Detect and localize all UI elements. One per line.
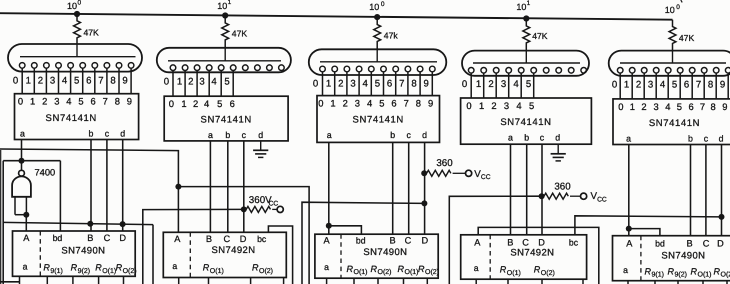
IC U3 SN74141N decoder/driver (column 3) (317, 96, 440, 143)
svg-text:2: 2 (343, 98, 348, 109)
wire: U3 pin b to counter 3 B (392, 142, 394, 234)
svg-text:B: B (507, 237, 513, 247)
nixie tube V5 (column 5, clipped) (609, 50, 730, 76)
svg-text:c: c (406, 130, 411, 140)
wire: +V supply rail (top) (0, 13, 673, 20)
svg-text:9: 9 (428, 98, 433, 109)
IC U9 SN7490N decade counter (column 3) (315, 234, 439, 284)
wire: net to U3 pin d (y=203) with drop at x=302 (302, 202, 424, 284)
svg-text:SN74141N: SN74141N (649, 118, 700, 129)
svg-text:3: 3 (653, 101, 658, 112)
node 10^0 label (column 1) (67, 0, 82, 11)
svg-text:c: c (540, 133, 545, 143)
svg-text:O(1): O(1) (210, 267, 224, 275)
svg-text:9(2): 9(2) (78, 267, 90, 275)
wire: U3 pin c to counter 3 C (408, 142, 410, 234)
wire: reset bus under counter 1 (B,D tie) (3, 222, 153, 224)
nixie tube V4 (column 4) (462, 50, 589, 76)
svg-text:3: 3 (350, 78, 355, 89)
svg-text:4: 4 (62, 76, 68, 87)
svg-text:C: C (703, 238, 710, 248)
wire: U2 pin c to counter 2 D (243, 141, 245, 232)
svg-text:4: 4 (516, 100, 521, 111)
junction: gate output on net (19, 158, 25, 164)
svg-text:R: R (691, 266, 698, 276)
svg-text:2: 2 (338, 78, 343, 89)
svg-text:D: D (421, 236, 428, 246)
svg-text:6: 6 (391, 98, 396, 109)
svg-text:6: 6 (387, 78, 392, 89)
svg-text:1: 1 (630, 101, 635, 112)
svg-text:7400: 7400 (35, 168, 56, 178)
ground symbol (U4 pin d) (551, 144, 566, 161)
svg-text:7: 7 (103, 95, 108, 106)
svg-text:4: 4 (660, 80, 666, 91)
svg-text:D: D (240, 234, 247, 244)
svg-text:7: 7 (98, 76, 103, 87)
svg-text:0: 0 (676, 4, 680, 11)
svg-text:360: 360 (554, 181, 571, 192)
svg-text:R: R (668, 266, 675, 276)
svg-text:1: 1 (228, 0, 232, 6)
nixie tube V3 (column 3) (309, 49, 447, 75)
IC U10 SN7492N counter (column 4) (461, 235, 587, 284)
IC U4 SN74141N decoder/driver (column 4) (461, 98, 592, 144)
svg-text:CC: CC (597, 196, 607, 203)
svg-text:a: a (23, 262, 28, 272)
svg-text:a: a (474, 263, 479, 273)
svg-text:R: R (398, 264, 405, 274)
svg-text:b: b (688, 133, 693, 143)
svg-text:d: d (422, 130, 427, 140)
wire: net y=186.6 to drop at x=309 (178, 187, 309, 284)
svg-text:8: 8 (708, 80, 713, 91)
svg-text:R: R (203, 263, 210, 273)
svg-text:R: R (534, 265, 541, 275)
svg-text:R: R (714, 266, 721, 276)
svg-text:5: 5 (74, 76, 79, 87)
svg-text:10: 10 (369, 2, 379, 12)
svg-text:R: R (252, 263, 259, 273)
svg-text:0: 0 (18, 95, 23, 106)
svg-text:bd: bd (655, 238, 665, 248)
svg-text:R: R (645, 266, 652, 276)
svg-text:0: 0 (381, 1, 385, 8)
svg-text:D: D (119, 233, 126, 243)
svg-text:bd: bd (53, 233, 63, 243)
svg-text:a: a (626, 133, 631, 143)
svg-text:3: 3 (54, 95, 59, 106)
svg-text:47K: 47K (232, 29, 248, 39)
svg-text:O(1): O(1) (698, 271, 712, 279)
cathode digit labels 0-5 (column 4) (462, 79, 531, 90)
junction: counter 1 B lead on bus (87, 221, 93, 227)
svg-text:0: 0 (466, 100, 471, 111)
svg-text:6: 6 (86, 76, 91, 87)
svg-text:4: 4 (204, 98, 209, 109)
svg-text:4: 4 (665, 101, 670, 112)
svg-text:9: 9 (122, 76, 127, 87)
node 10^1 label (column 4) (516, 0, 530, 12)
scan edge artifact (left) (0, 150, 2, 284)
wire: gate output net horizontal (y=160.7) (3, 160, 60, 162)
svg-text:3: 3 (199, 77, 204, 88)
svg-text:9(1): 9(1) (652, 271, 664, 279)
svg-text:O(2): O(2) (259, 267, 273, 275)
nixie tube V1 (column 1) (8, 44, 142, 72)
wire: net right branch down to counter bd input (59, 161, 61, 232)
svg-text:5: 5 (529, 100, 534, 111)
svg-text:bc: bc (257, 234, 267, 244)
svg-text:R: R (95, 262, 102, 272)
svg-text:2: 2 (193, 98, 198, 109)
svg-text:7: 7 (700, 101, 705, 112)
svg-text:SN74141N: SN74141N (500, 117, 551, 128)
svg-text:1: 1 (326, 78, 331, 89)
wire: U1 pin d to counter 1 D (122, 140, 124, 232)
svg-text:3: 3 (501, 79, 506, 90)
svg-text:6: 6 (90, 95, 95, 106)
svg-text:8: 8 (411, 78, 416, 89)
svg-text:10: 10 (516, 2, 526, 12)
svg-text:a: a (20, 129, 25, 139)
junction: U4 pin c lead to 360 ohm (539, 193, 545, 199)
IC U8 SN7492N counter (column 2) (163, 232, 286, 284)
svg-text:B: B (390, 236, 396, 246)
svg-text:A: A (474, 237, 481, 247)
svg-text:10: 10 (217, 1, 227, 11)
svg-text:7: 7 (696, 80, 701, 91)
svg-text:O(2): O(2) (378, 268, 392, 276)
svg-text:5: 5 (217, 98, 222, 109)
wire: drop x=142.8 and run to column 2 (143, 209, 244, 284)
svg-text:c: c (242, 130, 247, 140)
svg-text:6: 6 (688, 101, 693, 112)
svg-text:1: 1 (624, 80, 629, 91)
wire: counter 2 bc output route (up, right, down) (268, 226, 292, 284)
wire: U1 pin c to counter 1 C (106, 140, 108, 232)
svg-text:1: 1 (30, 95, 35, 106)
svg-text:B: B (687, 238, 693, 248)
svg-text:9: 9 (424, 78, 429, 89)
svg-text:B: B (206, 234, 212, 244)
wire: bus drop to bottom (x=153) (152, 225, 154, 284)
svg-text:R: R (116, 262, 123, 272)
junction: carry net tap (175, 184, 181, 190)
cathode digit labels 0-9 (column 3) (313, 78, 429, 89)
svg-text:d: d (258, 130, 263, 140)
svg-text:0: 0 (462, 79, 467, 90)
svg-text:0: 0 (78, 0, 82, 7)
svg-text:8: 8 (110, 76, 115, 87)
svg-text:a: a (508, 133, 513, 143)
svg-text:5: 5 (379, 98, 384, 109)
svg-text:1: 1 (476, 79, 481, 90)
svg-text:2: 2 (636, 80, 641, 91)
svg-text:A: A (174, 234, 181, 244)
svg-text:0: 0 (612, 80, 617, 91)
wire: U4 pin c to counter 4 D (541, 144, 543, 235)
svg-text:R: R (43, 262, 50, 272)
svg-text:D: D (538, 237, 545, 247)
resistor 360 ohm (column 3 net) (427, 170, 466, 176)
svg-text:b: b (390, 130, 395, 140)
svg-text:R: R (371, 264, 378, 274)
svg-text:2: 2 (641, 101, 646, 112)
svg-text:9: 9 (127, 95, 132, 106)
junction: gate inputs tied, to counter A (23, 212, 29, 232)
svg-text:5: 5 (375, 78, 380, 89)
junction: rail to R4 (523, 15, 529, 21)
svg-text:R: R (418, 264, 425, 274)
svg-text:b: b (524, 133, 529, 143)
svg-text:O(2): O(2) (123, 267, 137, 275)
label 360 (column 3) (436, 158, 453, 169)
junction: U2 pin c lead (241, 206, 247, 212)
svg-text:6: 6 (230, 98, 235, 109)
IC U11 SN7490N decade counter (column 5, clipped) (613, 236, 730, 284)
svg-text:D: D (717, 238, 724, 248)
junction: rail to R3 (374, 14, 380, 20)
junction: counter 1 D lead on bus (120, 221, 126, 227)
svg-text:B: B (87, 233, 93, 243)
svg-text:3: 3 (355, 98, 360, 109)
wire: net drop at left edge down to bottom (2, 161, 4, 284)
svg-text:C: C (104, 233, 111, 243)
cathode digit labels 0-9 (column 5) (612, 80, 725, 91)
wire: counter 4 bc up and right to counter 5 D (575, 216, 722, 235)
wire: U5 pin b to counter 5 B (690, 145, 692, 236)
svg-text:2: 2 (42, 95, 47, 106)
svg-text:0: 0 (164, 77, 169, 88)
junction: U3 pin d lead to 360 ohm (421, 170, 427, 176)
svg-text:SN7492N: SN7492N (510, 247, 554, 258)
svg-text:5: 5 (78, 95, 83, 106)
IC U1 SN74141N decoder/driver (column 1) (15, 94, 139, 140)
svg-text:a: a (324, 262, 329, 272)
label 360 (column 4) (554, 181, 571, 192)
junction: U3 pin d lead (carry) (421, 200, 427, 206)
svg-text:d: d (719, 133, 724, 143)
svg-text:1: 1 (479, 100, 484, 111)
svg-text:4: 4 (367, 98, 372, 109)
svg-text:0: 0 (618, 101, 623, 112)
wire: stray stub bottom left (0, 281, 19, 283)
svg-text:SN7490N: SN7490N (61, 246, 105, 257)
svg-text:C: C (223, 234, 230, 244)
wire: U4 pin a to counter 4 B (510, 144, 512, 235)
node 10^0 label (column 5) (665, 0, 682, 15)
svg-text:10: 10 (665, 5, 675, 15)
svg-text:9: 9 (722, 101, 727, 112)
wires: V1 cathodes 0-9 to U1 inputs (22, 68, 131, 94)
resistor 360 ohm (column 4 net) (544, 193, 581, 199)
wire: carry net from left edge (y=149) to counter 2 A (0, 149, 178, 232)
wires: V3 cathodes 0-9 to U3 inputs (323, 72, 433, 96)
svg-text:4: 4 (66, 95, 71, 106)
svg-text:O(1): O(1) (507, 269, 521, 277)
svg-text:d: d (120, 129, 125, 139)
label 7400 (35, 168, 56, 178)
junction: counter 5 A / bd tie (626, 226, 660, 236)
label Vcc (column 4) (591, 191, 607, 203)
svg-text:9(2): 9(2) (675, 271, 687, 279)
svg-text:3: 3 (50, 76, 55, 87)
svg-text:O(1): O(1) (102, 267, 116, 275)
svg-text:a: a (623, 265, 628, 275)
svg-text:CC: CC (481, 174, 491, 181)
svg-text:5: 5 (224, 77, 229, 88)
svg-text:4: 4 (513, 79, 519, 90)
cathode digit labels 0-9 (column 1) (13, 76, 128, 87)
resistor R3 47k (anode, column 3) (374, 17, 399, 49)
resistor R5 47K (anode, column 5; rail corner) (669, 20, 694, 51)
wire: U4 pin b to counter 4 C (526, 144, 528, 235)
svg-text:b: b (225, 130, 230, 140)
svg-text:b: b (89, 129, 94, 139)
svg-text:1: 1 (177, 77, 182, 88)
IC U2 SN74141N decoder/driver (column 2) (164, 96, 288, 141)
terminal Vcc (open circle, column 3) (466, 170, 472, 176)
svg-text:47k: 47k (384, 31, 399, 41)
svg-text:0: 0 (169, 98, 174, 109)
svg-text:2: 2 (38, 76, 43, 87)
label 360Vcc (249, 195, 279, 207)
node 10^1 label (column 2) (217, 0, 231, 11)
svg-text:5: 5 (672, 80, 677, 91)
svg-text:9: 9 (720, 80, 725, 91)
svg-text:8: 8 (115, 95, 120, 106)
junction: counter 5 D lead (carry) (719, 214, 725, 220)
svg-text:1: 1 (330, 98, 335, 109)
svg-text:47K: 47K (532, 31, 548, 41)
svg-text:c: c (704, 133, 709, 143)
svg-text:O(2): O(2) (721, 271, 730, 279)
svg-text:d: d (555, 133, 560, 143)
junction: counter 3 A / bd tie (326, 223, 362, 234)
svg-text:SN7490N: SN7490N (661, 250, 705, 261)
svg-text:A: A (23, 233, 30, 243)
wires: V4 cathodes 0-5 to U4 inputs (471, 73, 534, 98)
junction: rail to R2 (222, 12, 228, 18)
svg-text:9(1): 9(1) (50, 267, 62, 275)
svg-text:5: 5 (677, 101, 682, 112)
svg-text:a: a (327, 130, 332, 140)
wire: drop x=449.3 and run to U4 pin c (449, 196, 541, 284)
svg-text:7: 7 (399, 78, 404, 89)
cathode digit labels 0-5 (column 2) (164, 77, 230, 88)
wire: U2 pin b to counter 2 C (227, 141, 229, 232)
terminal Vcc (open circle) (277, 206, 283, 212)
svg-text:4: 4 (363, 78, 369, 89)
wire: U1 pin a down to gate output (21, 140, 23, 171)
wire: U5 pin c to counter 5 C (705, 145, 707, 236)
svg-text:C: C (522, 237, 529, 247)
svg-text:CC: CC (269, 200, 279, 207)
svg-text:a: a (172, 261, 177, 271)
wire: U5 pin a to counter 5 A (628, 145, 630, 236)
svg-text:0: 0 (318, 98, 323, 109)
svg-text:1: 1 (181, 98, 186, 109)
svg-text:0: 0 (13, 76, 18, 87)
svg-text:c: c (105, 129, 110, 139)
svg-text:a: a (208, 130, 213, 140)
wire: counter 4 A branch with drop at x=598.8 (478, 227, 599, 284)
svg-text:R: R (347, 264, 354, 274)
nixie tube V2 (column 2) (157, 47, 291, 72)
resistor R4 47K (anode, column 4) (523, 19, 548, 51)
svg-text:SN74141N: SN74141N (201, 115, 252, 126)
svg-text:bc: bc (569, 237, 579, 247)
svg-text:C: C (405, 236, 412, 246)
svg-text:3: 3 (504, 100, 509, 111)
resistor R1 47K (anode, column 1) (74, 14, 99, 45)
svg-text:4: 4 (211, 77, 217, 88)
svg-text:10: 10 (67, 1, 77, 11)
svg-text:8: 8 (710, 101, 715, 112)
svg-text:360: 360 (436, 158, 453, 169)
svg-text:R: R (500, 265, 507, 275)
node 10^0 label (column 3) (369, 1, 385, 12)
svg-text:2: 2 (188, 77, 193, 88)
wire: U3 pin d to counter 3 D (424, 142, 426, 234)
svg-text:bd: bd (356, 236, 366, 246)
svg-text:SN74141N: SN74141N (353, 115, 404, 126)
ground symbol (U2 pin d) (253, 141, 268, 158)
svg-text:5: 5 (526, 79, 531, 90)
svg-text:R: R (71, 262, 78, 272)
wire: U5 pin d to counter 5 D (721, 145, 723, 236)
svg-text:3: 3 (648, 80, 653, 91)
wire: U1 pin b to counter 1 B (90, 140, 92, 232)
svg-text:7: 7 (404, 98, 409, 109)
svg-text:6: 6 (684, 80, 689, 91)
IC U7 SN7490N decade counter (column 1) (13, 231, 137, 284)
wires: V2 cathodes 0-5 to U2 inputs (173, 71, 233, 97)
svg-text:O(2): O(2) (541, 269, 555, 277)
svg-text:8: 8 (416, 98, 421, 109)
svg-text:2: 2 (491, 100, 496, 111)
svg-text:A: A (324, 236, 331, 246)
resistor R2 47K (anode, column 2) (222, 16, 248, 48)
wires: V5 cathodes 0-9 to U5 inputs (620, 73, 728, 99)
wire: U3 pin a to counter 3 A (328, 142, 330, 234)
svg-text:O(1): O(1) (405, 268, 419, 276)
svg-text:O(1): O(1) (354, 268, 368, 276)
terminal Vcc (open circle, column 4) (581, 193, 587, 199)
svg-text:1: 1 (26, 76, 31, 87)
NAND gate U6 7400 (inverter-connected), bubble on output (12, 170, 31, 214)
IC U5 SN74141N decoder/driver (column 5, clipped) (613, 99, 730, 145)
svg-text:SN7492N: SN7492N (212, 245, 256, 256)
label Vcc (column 3) (474, 169, 490, 181)
svg-text:47K: 47K (84, 28, 100, 38)
junction: rail to R1 (74, 11, 80, 17)
svg-text:O(2): O(2) (425, 268, 439, 276)
svg-text:SN7490N: SN7490N (363, 247, 407, 258)
wire: U2 pin a to counter 2 B (209, 141, 211, 232)
svg-text:A: A (626, 238, 633, 248)
resistor 360 ohm (column 2 net) (246, 206, 277, 212)
svg-text:0: 0 (313, 78, 318, 89)
svg-text:SN74141N: SN74141N (46, 113, 97, 124)
svg-text:47K: 47K (679, 33, 695, 43)
svg-text:2: 2 (488, 79, 493, 90)
svg-text:1: 1 (527, 0, 531, 7)
